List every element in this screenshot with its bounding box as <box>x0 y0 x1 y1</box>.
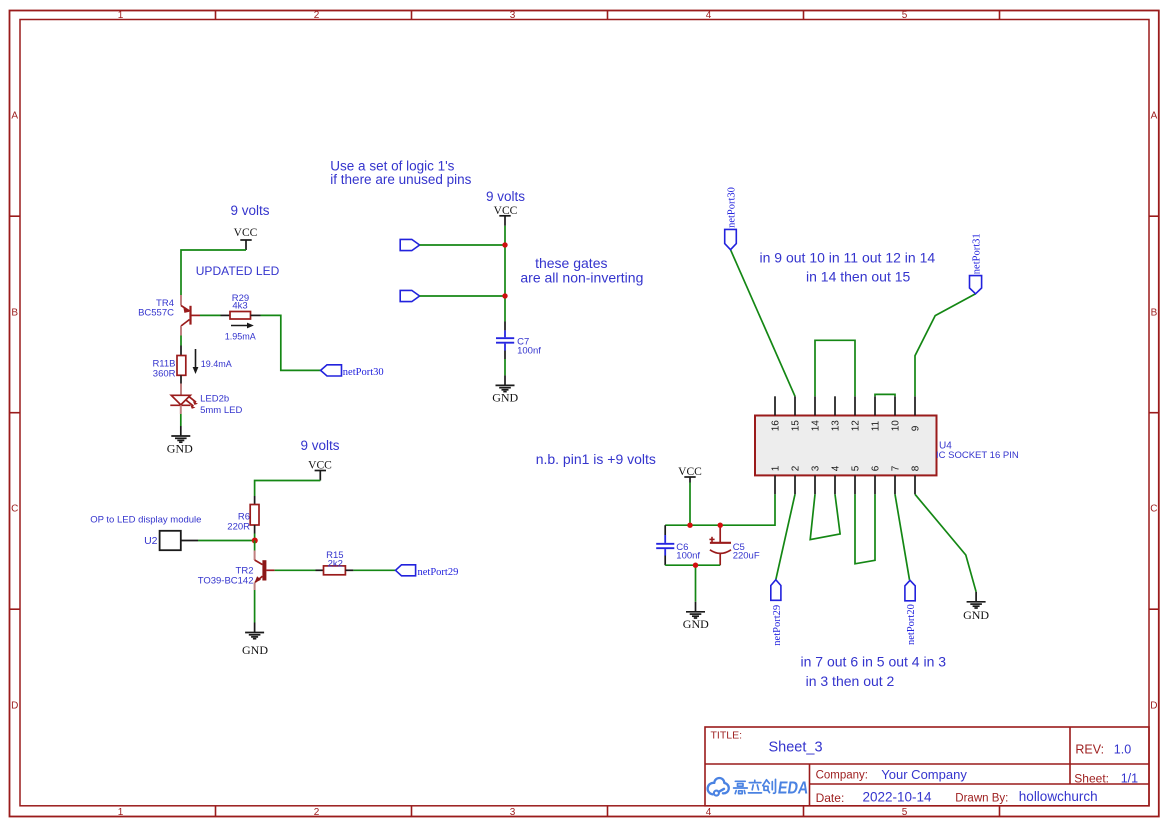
svg-text:1: 1 <box>118 807 124 818</box>
svg-text:16: 16 <box>771 420 782 432</box>
svg-text:OP to LED display module: OP to LED display module <box>90 515 201 526</box>
svg-text:GND: GND <box>167 441 193 455</box>
svg-text:19.4mA: 19.4mA <box>201 359 232 369</box>
svg-text:7: 7 <box>891 465 902 471</box>
svg-text:8: 8 <box>911 465 922 471</box>
svg-text:Company:: Company: <box>816 769 868 781</box>
svg-text:4: 4 <box>831 465 842 471</box>
svg-text:LED2b: LED2b <box>200 394 229 405</box>
svg-text:1.95mA: 1.95mA <box>225 331 256 341</box>
svg-text:3: 3 <box>510 807 516 818</box>
svg-text:1: 1 <box>771 465 782 471</box>
svg-text:4: 4 <box>706 10 712 21</box>
svg-text:12: 12 <box>851 420 862 432</box>
svg-text:D: D <box>11 701 18 712</box>
svg-text:REV:: REV: <box>1075 743 1104 757</box>
svg-text:1: 1 <box>118 10 124 21</box>
svg-text:VCC: VCC <box>234 227 258 239</box>
svg-text:GND: GND <box>492 391 518 405</box>
svg-text:GND: GND <box>242 643 268 657</box>
svg-text:A: A <box>1151 111 1158 122</box>
svg-text:TITLE:: TITLE: <box>711 729 743 741</box>
svg-text:9 volts: 9 volts <box>230 203 269 218</box>
svg-text:11: 11 <box>871 420 882 431</box>
svg-text:Sheet:: Sheet: <box>1074 771 1109 785</box>
svg-text:4k3: 4k3 <box>232 301 247 312</box>
svg-text:100nf: 100nf <box>517 346 541 357</box>
svg-text:3: 3 <box>510 10 516 21</box>
svg-text:C: C <box>11 504 18 515</box>
svg-text:UPDATED LED: UPDATED LED <box>196 264 280 278</box>
svg-text:2022-10-14: 2022-10-14 <box>863 790 933 805</box>
svg-text:100nf: 100nf <box>676 550 700 561</box>
svg-text:5mm LED: 5mm LED <box>200 405 242 416</box>
svg-text:6: 6 <box>871 465 882 471</box>
svg-text:2: 2 <box>314 807 320 818</box>
svg-text:2k2: 2k2 <box>328 558 343 569</box>
svg-text:hollowchurch: hollowchurch <box>1019 789 1098 804</box>
svg-text:220uF: 220uF <box>733 550 760 561</box>
svg-text:A: A <box>11 111 18 122</box>
svg-text:netPort20: netPort20 <box>906 604 917 645</box>
svg-text:B: B <box>1151 308 1158 319</box>
svg-text:9 volts: 9 volts <box>300 438 339 453</box>
svg-text:BC557C: BC557C <box>138 308 174 319</box>
svg-text:Your Company: Your Company <box>881 767 967 782</box>
svg-text:TO39-BC142: TO39-BC142 <box>198 575 254 586</box>
svg-text:Use a set of logic 1's: Use a set of logic 1's <box>330 158 454 173</box>
svg-text:5: 5 <box>851 465 862 471</box>
svg-text:IC SOCKET 16 PIN: IC SOCKET 16 PIN <box>936 450 1019 461</box>
svg-text:netPort29: netPort29 <box>772 605 783 646</box>
svg-text:Drawn By:: Drawn By: <box>955 793 1008 805</box>
svg-text:220R: 220R <box>227 522 250 533</box>
svg-text:EDA: EDA <box>777 778 810 798</box>
svg-text:are all non-inverting: are all non-inverting <box>520 270 643 286</box>
svg-text:5: 5 <box>902 807 908 818</box>
svg-text:GND: GND <box>963 608 989 622</box>
svg-text:netPort31: netPort31 <box>972 233 983 274</box>
svg-text:netPort30: netPort30 <box>726 187 737 228</box>
svg-text:5: 5 <box>902 10 908 21</box>
svg-text:14: 14 <box>811 420 822 432</box>
svg-text:1.0: 1.0 <box>1114 743 1131 757</box>
svg-text:3: 3 <box>811 465 822 471</box>
svg-text:netPort30: netPort30 <box>343 367 384 378</box>
svg-text:2: 2 <box>791 465 802 471</box>
svg-text:netPort29: netPort29 <box>418 567 459 578</box>
svg-text:Date:: Date: <box>816 791 845 805</box>
svg-text:if there are unused pins: if there are unused pins <box>330 172 471 187</box>
svg-text:in 7 out 6 in 5 out 4 in 3: in 7 out 6 in 5 out 4 in 3 <box>801 653 947 669</box>
svg-text:1/1: 1/1 <box>1121 771 1138 785</box>
svg-text:13: 13 <box>831 420 842 432</box>
svg-text:2: 2 <box>314 10 320 21</box>
svg-text:in 14 then out 15: in 14 then out 15 <box>806 269 911 285</box>
svg-text:9: 9 <box>911 425 922 431</box>
svg-text:C: C <box>1150 504 1157 515</box>
svg-text:GND: GND <box>683 617 709 631</box>
svg-text:15: 15 <box>791 420 802 432</box>
svg-text:B: B <box>11 308 18 319</box>
svg-text:10: 10 <box>891 420 902 432</box>
svg-text:360R: 360R <box>153 368 176 379</box>
svg-text:in 9 out 10 in 11 out 12 in 14: in 9 out 10 in 11 out 12 in 14 <box>760 250 936 266</box>
svg-text:4: 4 <box>706 807 712 818</box>
svg-text:n.b. pin1 is +9 volts: n.b. pin1 is +9 volts <box>536 451 656 467</box>
svg-text:U2: U2 <box>144 535 158 547</box>
svg-text:9 volts: 9 volts <box>486 189 525 204</box>
svg-text:in 3 then out 2: in 3 then out 2 <box>806 673 895 689</box>
svg-text:D: D <box>1150 701 1157 712</box>
svg-text:Sheet_3: Sheet_3 <box>769 740 823 756</box>
